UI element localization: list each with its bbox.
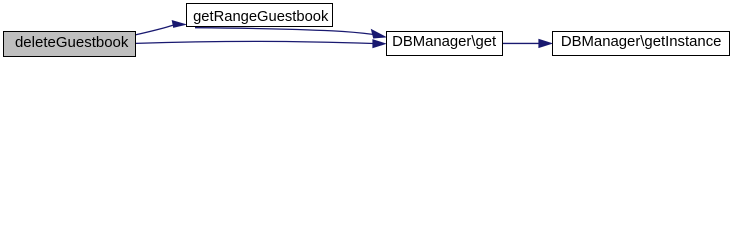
- wire edge DBManager\get -> DBManager\getInstance: [503, 42, 540, 44]
- wire edge deleteGuestbook -> getRangeGuestbook: [136, 25, 173, 35]
- arrowhead into DBManager\get from deleteGuestbook: [373, 40, 385, 48]
- node DBManager\getInstance: [552, 31, 731, 56]
- node deleteGuestbook (current node, grey): [3, 31, 136, 57]
- arrowhead into DBManager\get from getRangeGuestbook: [372, 30, 386, 38]
- arrowhead into getRangeGuestbook: [172, 21, 185, 28]
- node DBManager\get: [386, 31, 503, 56]
- wire edge getRangeGuestbook -> DBManager\get: [195, 28, 373, 35]
- wire edge deleteGuestbook -> DBManager\get: [136, 41, 373, 43]
- node getRangeGuestbook: [186, 3, 333, 28]
- arrowhead into DBManager\getInstance: [539, 39, 552, 47]
